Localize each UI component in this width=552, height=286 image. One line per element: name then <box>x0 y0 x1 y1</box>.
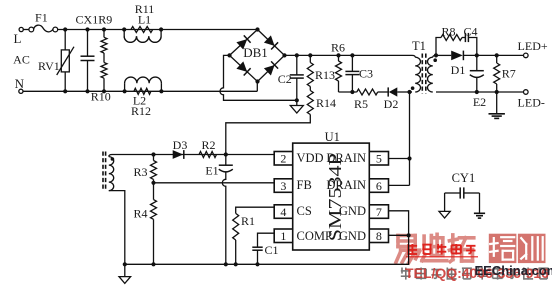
wire DC+ rail <box>285 54 413 56</box>
node top rail at RV1 <box>63 27 67 31</box>
svg-text:R8: R8 <box>441 25 455 39</box>
svg-text:R5: R5 <box>354 97 368 111</box>
terminal LED- <box>524 90 529 95</box>
capacitor E2 <box>476 55 478 70</box>
capacitor C3 <box>351 55 353 71</box>
node rail at aux <box>123 262 127 266</box>
wire CY1 left leg <box>444 193 446 211</box>
transformer T1 primary winding <box>412 55 415 57</box>
svg-text:EEChina.com: EEChina.com <box>475 263 552 278</box>
svg-text:6: 6 <box>376 179 382 193</box>
ground (open triangle at rail left) <box>124 264 126 276</box>
wire snubber bottom <box>339 91 357 93</box>
watermark big char 3 <box>449 235 473 262</box>
watermark big char 2 <box>422 234 447 260</box>
svg-text:U1: U1 <box>325 130 340 144</box>
node drain at pin5 <box>407 156 411 160</box>
resistor R4 <box>153 183 155 200</box>
wire R5 to D2 <box>378 91 389 93</box>
wire C4 down to output <box>468 38 476 56</box>
svg-text:E2: E2 <box>473 95 486 109</box>
svg-text:R12: R12 <box>131 104 151 118</box>
watermark gray caption row <box>401 268 411 280</box>
wire N rail riser to bridge <box>256 82 258 92</box>
resistor R6 <box>338 55 340 61</box>
svg-text:F1: F1 <box>35 11 48 25</box>
svg-text:3: 3 <box>280 179 286 193</box>
diode D3 <box>173 150 184 159</box>
transformer T1 core <box>421 54 423 94</box>
node rail at E1 <box>224 262 228 266</box>
resistor R8 <box>441 35 462 41</box>
node snubber at C3 bottom <box>350 90 354 94</box>
terminal N <box>19 89 23 93</box>
node vdd line at R3 <box>151 152 155 156</box>
ground (open triangle under CY1) <box>439 211 450 218</box>
node drain <box>407 90 411 94</box>
node N rail at RV1 <box>63 89 67 93</box>
node bottom at E2 <box>475 90 479 94</box>
node secondary top <box>434 53 438 57</box>
bridge diode upper-right <box>264 35 275 46</box>
watermark block char 4 <box>489 234 517 263</box>
svg-text:AC: AC <box>13 53 30 67</box>
svg-text:R4: R4 <box>133 207 147 221</box>
ground (hatched under CY1) <box>474 212 485 214</box>
pin box 7 <box>369 205 388 219</box>
svg-text:C1: C1 <box>264 243 278 257</box>
node bottom at R7 <box>495 90 499 94</box>
svg-text:7: 7 <box>376 205 382 219</box>
node output at R7 <box>495 53 499 57</box>
wire vdd line <box>112 154 274 156</box>
svg-text:D2: D2 <box>384 97 399 111</box>
svg-text:5: 5 <box>376 152 382 166</box>
wire R14 to VDD node <box>226 115 310 155</box>
terminal LED+ <box>524 53 529 58</box>
node bridge top <box>255 27 259 31</box>
svg-text:VDD: VDD <box>297 151 324 165</box>
node top rail at R9 <box>102 27 106 31</box>
ground (secondary, under R7) <box>496 92 498 114</box>
transformer T1 secondary winding <box>433 55 436 57</box>
capacitor C4 <box>464 33 466 42</box>
svg-text:N: N <box>15 76 25 91</box>
node bridge right <box>282 53 286 57</box>
pin box 5 <box>369 152 388 166</box>
resistor R5 <box>357 89 378 95</box>
svg-text:DB1: DB1 <box>243 45 268 60</box>
wire COMP line <box>258 233 275 247</box>
wire bridge left to ground bus with hop <box>220 55 297 100</box>
wire top rail L segment <box>58 29 258 31</box>
diode D1 <box>451 51 463 61</box>
watermark block char 5 <box>518 234 546 263</box>
node DC+ at R6 <box>336 53 340 57</box>
svg-text:CX1R9: CX1R9 <box>76 12 113 26</box>
pin box 2 <box>274 152 293 166</box>
svg-text:L1: L1 <box>138 13 151 27</box>
capacitor C1 <box>252 246 262 248</box>
svg-text:DRAIN: DRAIN <box>326 151 366 165</box>
svg-text:C4: C4 <box>463 25 477 39</box>
node output at E2 <box>475 53 479 57</box>
snubber branch wire up <box>436 38 441 56</box>
svg-text:R1: R1 <box>241 214 255 228</box>
svg-text:FB: FB <box>297 178 312 192</box>
bridge diode lower-left <box>236 61 247 72</box>
node L1 right <box>159 27 163 31</box>
node L2 right <box>159 89 163 93</box>
pin box 4 <box>274 205 293 219</box>
resistor R7 <box>496 55 498 63</box>
transformer aux winding <box>102 152 104 191</box>
svg-text:R13: R13 <box>315 68 335 82</box>
node gnd at pin8 <box>407 233 411 237</box>
svg-text:R3: R3 <box>133 165 147 179</box>
wire pin5 <box>389 158 410 160</box>
svg-text:LED-: LED- <box>518 95 545 109</box>
node DC+ at C3 <box>350 53 354 57</box>
fuse F1 <box>29 27 34 32</box>
svg-text:R6: R6 <box>331 41 345 55</box>
svg-text:D3: D3 <box>173 138 188 152</box>
phasing dot aux <box>111 157 115 161</box>
pin box 3 <box>274 179 293 193</box>
node ground bus at C2 <box>295 98 299 102</box>
inductor L2 <box>124 83 126 91</box>
node DC+ at C2 <box>295 53 299 57</box>
wire secondary to D1 <box>436 54 451 56</box>
node L1 left <box>122 27 126 31</box>
node rail at R1 <box>234 262 238 266</box>
diode D2 <box>389 87 398 96</box>
svg-text:2: 2 <box>280 152 286 166</box>
wire pin6 <box>389 184 410 186</box>
capacitor E1 <box>225 155 227 166</box>
wire secondary bottom line <box>436 91 524 93</box>
watermark red company name <box>408 244 417 255</box>
resistor R3 <box>153 155 155 161</box>
node top rail at CX1 <box>85 27 89 31</box>
terminal L <box>19 27 23 31</box>
svg-text:D1: D1 <box>451 63 466 77</box>
wire D1 to LED+ <box>463 54 523 56</box>
svg-text:DRAIN: DRAIN <box>326 178 366 192</box>
wire CS line <box>236 207 275 213</box>
node VDD junction <box>224 152 228 156</box>
resistor R2 <box>199 152 217 158</box>
bridge rectifier DB1 <box>230 30 285 82</box>
wire FB line <box>154 182 275 184</box>
svg-text:GND: GND <box>339 204 366 218</box>
svg-text:RV1: RV1 <box>38 59 60 73</box>
wire N rail <box>23 90 257 92</box>
phasing dot primary <box>411 86 415 90</box>
node N rail at R10 <box>102 89 106 93</box>
resistor R1 <box>233 213 239 240</box>
resistor R13 <box>309 55 311 62</box>
svg-text:T1: T1 <box>412 39 426 53</box>
wire aux bottom to ground rail <box>109 191 125 265</box>
svg-text:R7: R7 <box>502 67 516 81</box>
bridge diode upper-left <box>236 39 247 49</box>
capacitor CX1 <box>87 30 89 57</box>
node rail at R4 <box>151 262 155 266</box>
svg-text:COMP: COMP <box>297 229 332 243</box>
svg-text:LED+: LED+ <box>518 39 548 53</box>
pin box 8 <box>369 229 388 243</box>
wire pin8 <box>389 234 409 236</box>
svg-text:R2: R2 <box>201 138 215 152</box>
op-amp U1 body (SM7534P) <box>293 143 370 250</box>
wire CY1 right leg <box>479 193 481 213</box>
svg-text:1: 1 <box>280 229 286 243</box>
svg-text:4: 4 <box>280 205 286 219</box>
resistor R9 <box>103 30 105 38</box>
svg-text:CY1: CY1 <box>452 171 476 185</box>
resistor R11 <box>131 27 153 33</box>
drain vertical wire <box>409 92 411 185</box>
resistor R14 <box>309 87 311 91</box>
node DC+ at R13 <box>308 53 312 57</box>
resistor R10 <box>101 63 107 79</box>
node bridge left <box>227 53 231 57</box>
wire D2 to primary <box>397 91 412 93</box>
wire R8 to C4 <box>462 37 465 39</box>
wire L to fuse <box>23 29 29 31</box>
wire pin7 to gnd <box>125 211 409 264</box>
pin box 1 <box>274 229 293 243</box>
node L2 left <box>123 89 127 93</box>
phasing dot secondary <box>433 58 437 62</box>
varistor RV1 <box>64 30 66 50</box>
svg-text:C2: C2 <box>278 72 292 86</box>
svg-text:E1: E1 <box>205 164 218 178</box>
capacitor C2 <box>296 55 298 75</box>
svg-text:GND: GND <box>339 229 366 243</box>
ground (primary, under C2) <box>296 100 298 105</box>
node N rail at CX1 <box>85 89 89 93</box>
bridge diode lower-right <box>264 65 275 76</box>
svg-text:C3: C3 <box>359 67 373 81</box>
resistor R12 <box>134 88 151 94</box>
svg-text:8: 8 <box>376 229 382 243</box>
pin box 6 <box>369 179 388 193</box>
svg-text:L: L <box>14 31 22 46</box>
inductor L1 <box>124 30 161 43</box>
watermark big char 1 <box>396 236 420 263</box>
node bridge bottom <box>255 79 259 83</box>
node rail at C1 <box>255 262 259 266</box>
svg-text:CS: CS <box>297 204 312 218</box>
node FB at R3/R4 <box>151 181 155 185</box>
svg-text:R14: R14 <box>316 96 336 110</box>
